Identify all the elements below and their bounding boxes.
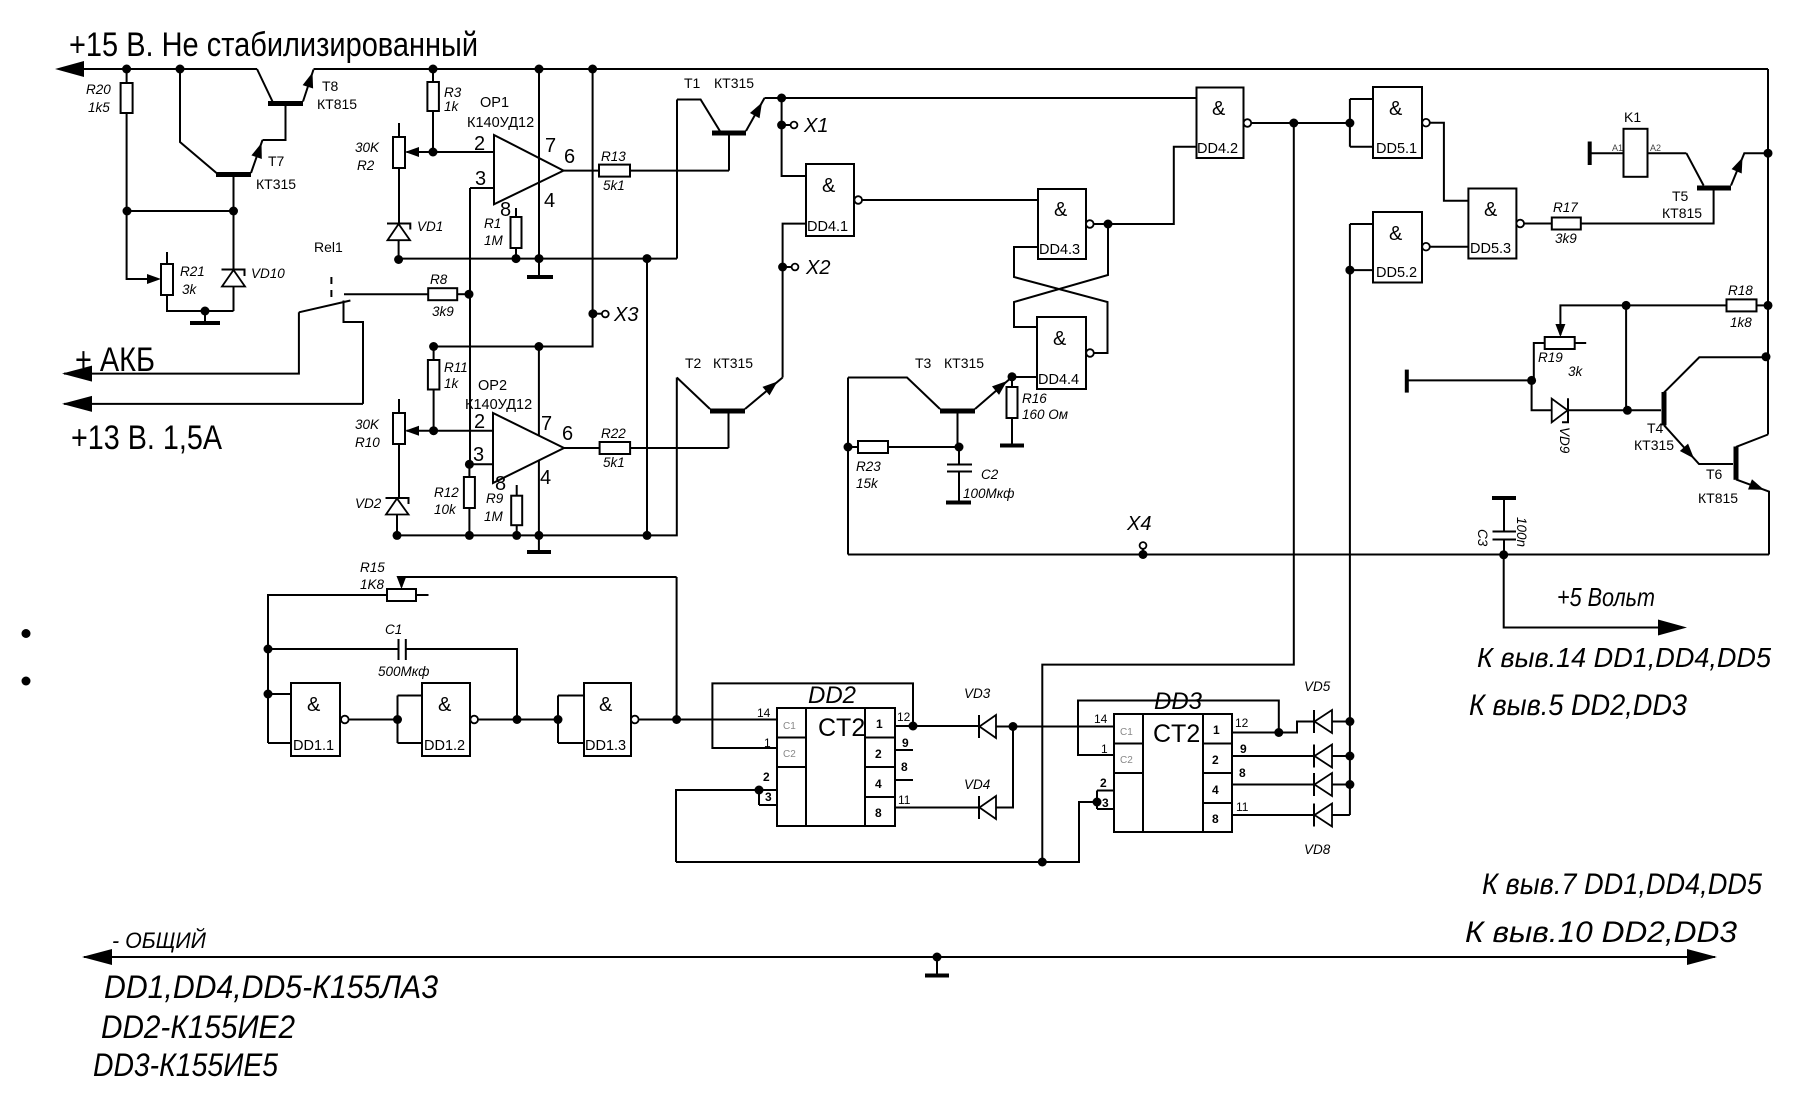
transistor T6 collector	[1736, 435, 1768, 447]
junction dot R23 left	[844, 443, 853, 452]
capacitor C3	[1503, 500, 1505, 532]
svg-text:8: 8	[875, 806, 882, 820]
svg-text:&: &	[1389, 98, 1403, 120]
ground R16	[1000, 444, 1024, 448]
junction dot DD4.2 out A	[1289, 119, 1298, 128]
wire DD5.1 input bracket	[1350, 99, 1373, 147]
wire DD3 feedback pin12 to C2 input	[1078, 701, 1279, 756]
transistor T5 base bar	[1697, 186, 1731, 191]
resistor R16 body	[1007, 387, 1018, 418]
svg-text:R13: R13	[601, 149, 626, 164]
svg-text:4: 4	[540, 467, 551, 489]
junction dot DD3 pin12	[1274, 728, 1283, 737]
transistor T5 collector	[1686, 153, 1703, 185]
transistor T6 base bar	[1734, 447, 1739, 480]
zener VD2 bottom lead	[396, 515, 398, 536]
wire DD3 pin11 line	[1232, 814, 1314, 816]
wire reset long line	[676, 802, 1097, 862]
svg-text:&: &	[1484, 199, 1498, 221]
junction dot base line right	[229, 207, 238, 216]
transistor T4 collector	[1664, 357, 1766, 392]
svg-text:T4: T4	[1647, 420, 1664, 436]
svg-text:R18: R18	[1728, 283, 1753, 298]
wire VD9 to T4 base	[1568, 409, 1661, 411]
svg-text:C2: C2	[1120, 755, 1133, 766]
junction dot R23 right	[955, 443, 964, 452]
svg-text:X2: X2	[805, 257, 830, 279]
svg-text:1k: 1k	[444, 376, 460, 391]
svg-text:3k9: 3k9	[432, 304, 454, 319]
potentiometer R2 wiper arrow	[405, 147, 419, 157]
potentiometer R10 wiper arrow	[405, 426, 419, 436]
wire T1 emitter line to DD4.2	[765, 97, 1197, 99]
svg-text:T8: T8	[322, 78, 339, 94]
diode VD3	[978, 715, 980, 738]
capacitor C3 terminal bar	[1492, 496, 1516, 500]
svg-text:500Мкф: 500Мкф	[378, 664, 429, 679]
svg-text:6: 6	[562, 423, 573, 445]
svg-text:C3: C3	[1475, 529, 1490, 547]
svg-text:14: 14	[1094, 712, 1108, 726]
zener VD9 triangle	[1552, 399, 1568, 423]
ground C2	[946, 501, 971, 505]
transistor T7 emitter	[251, 140, 263, 173]
wire R20 top lead	[126, 69, 128, 83]
wire VD5 cathode to bus	[1332, 721, 1350, 723]
resistor R8 body	[428, 288, 457, 300]
transistor T8 collector	[257, 69, 273, 102]
junction dot DD4.3 output	[1104, 220, 1113, 229]
wire VD6 cathode to bus	[1332, 755, 1350, 757]
svg-text:2: 2	[763, 770, 770, 784]
wire DD2 reset feed	[676, 790, 759, 862]
zener VD10 bottom lead	[233, 287, 235, 312]
wire DD3 pins 2,3 bracket	[1097, 791, 1114, 810]
svg-text:30K: 30K	[355, 417, 380, 432]
svg-text:100n: 100n	[1514, 517, 1529, 547]
terminal bar K1 left	[1588, 142, 1592, 166]
svg-text:R1: R1	[484, 216, 501, 231]
svg-text:4: 4	[875, 777, 882, 791]
wire R10 top stub	[398, 399, 400, 413]
svg-text:VD5: VD5	[1304, 679, 1331, 694]
transistor T2 base stem	[728, 413, 730, 448]
wire R12 top lead	[468, 464, 470, 477]
junction dot DD4.2 out B	[1345, 119, 1354, 128]
svg-text:160 Ом: 160 Ом	[1022, 407, 1068, 422]
junction dot VD3-VD4	[1009, 722, 1018, 731]
junction dot bus VD6	[1345, 752, 1354, 761]
diode VD5	[1313, 710, 1315, 733]
wire OP2 pin3 stub	[469, 463, 493, 465]
svg-text:КТ315: КТ315	[944, 355, 984, 371]
wire T7 base to R20 branch	[127, 210, 234, 212]
svg-text:5k1: 5k1	[603, 178, 625, 193]
junction dot DD1.3 input	[554, 715, 563, 724]
svg-text:DD1.3: DD1.3	[585, 738, 626, 754]
wire +15V rail left segment	[60, 68, 257, 70]
wire DD4.2 output long drop to counters reset	[1042, 123, 1294, 862]
wire R22 to T2 base	[630, 447, 728, 449]
svg-text:&: &	[1389, 223, 1403, 245]
junction dot rail OP1 power	[535, 65, 544, 74]
transistor T3 emitter	[975, 377, 1037, 409]
capacitor C1	[268, 648, 399, 650]
arrow +15V left	[55, 61, 84, 77]
wire OP1 power pin7 vertical	[538, 69, 540, 259]
wire common rail	[84, 956, 1715, 958]
junction dot VD9 node	[1527, 376, 1536, 385]
svg-text:R10: R10	[355, 435, 380, 450]
node X3	[588, 309, 597, 318]
svg-text:1k: 1k	[444, 99, 460, 114]
svg-text:R15: R15	[360, 560, 385, 575]
potentiometer R21 wiper arrow	[147, 274, 161, 284]
svg-text:1k5: 1k5	[88, 100, 110, 115]
junction dot T4 collector rail	[1762, 352, 1771, 361]
ground OP1	[538, 259, 540, 276]
wire R15 wiper feed	[402, 577, 677, 587]
wire +15V rail right segment	[314, 68, 1769, 70]
wire DD4.2 output line	[1251, 122, 1350, 124]
svg-text:R23: R23	[856, 459, 881, 474]
svg-text:7: 7	[545, 135, 556, 157]
transistor T3 base bar	[940, 409, 975, 414]
diode VD6	[1313, 745, 1315, 768]
wire R19 wiper feed	[1560, 305, 1626, 335]
svg-text:VD2: VD2	[355, 496, 382, 511]
junction dot DD3 pins 2,3	[1093, 798, 1102, 807]
wire DD5.3 output to R17	[1524, 223, 1552, 225]
junction dot feed OP2 power	[534, 342, 543, 351]
transistor T7 emitter arrow	[251, 141, 266, 159]
svg-text:11: 11	[1236, 800, 1249, 814]
svg-text:&: &	[307, 694, 321, 716]
wire +AKB riser	[64, 312, 299, 373]
junction dot bus VD7	[1345, 780, 1354, 789]
svg-text:&: &	[1053, 328, 1067, 350]
nand gate DD4.2	[1197, 88, 1252, 159]
resistor R18 body	[1727, 299, 1757, 311]
svg-text:T5: T5	[1672, 188, 1689, 204]
junction dot T5 emitter rail	[1764, 149, 1773, 158]
svg-text:R2: R2	[357, 158, 375, 173]
stray dot B	[22, 677, 31, 686]
wire DD4.1 output	[862, 199, 1038, 201]
transistor T6 emitter arrow	[1748, 479, 1766, 495]
wire R11 bottom lead	[433, 390, 435, 431]
zener VD2 triangle	[386, 499, 409, 515]
transistor T3 base stem	[957, 413, 959, 447]
junction dot branch bottom	[643, 531, 652, 540]
svg-text:+13 В. 1,5А: +13 В. 1,5А	[71, 419, 222, 457]
junction dot R8 right	[465, 290, 474, 299]
svg-text:1M: 1M	[484, 509, 504, 524]
transistor T1 base stem	[728, 135, 730, 171]
wire DD5.1 output to DD5.3	[1430, 123, 1469, 201]
label VD9 rotated	[1557, 427, 1572, 454]
wire T3 collector drop to X4 rail	[847, 378, 849, 555]
transistor T5 emitter	[1731, 153, 1768, 185]
svg-text:DD4.3: DD4.3	[1039, 242, 1080, 258]
relay coil K1	[1612, 109, 1661, 177]
wire OP1 pin2 line	[407, 151, 495, 153]
svg-text:DD5.2: DD5.2	[1376, 265, 1417, 281]
node X4	[1139, 550, 1148, 559]
wire OP2 feed from rail	[434, 69, 593, 347]
wire R19 left lead	[1534, 343, 1545, 380]
wire +5V rail	[848, 554, 1769, 556]
wire R18 left lead	[1626, 304, 1726, 306]
nand gate DD5.1	[1373, 87, 1430, 158]
svg-text:DD4.2: DD4.2	[1197, 141, 1238, 157]
svg-text:DD2-К155ИЕ2: DD2-К155ИЕ2	[101, 1009, 295, 1045]
junction dot feed R11	[429, 342, 438, 351]
svg-text:T1: T1	[684, 75, 701, 91]
potentiometer R19 body	[1545, 337, 1575, 349]
arrow +13V	[62, 396, 92, 412]
wire R11 top lead	[433, 347, 435, 361]
svg-text:1: 1	[1213, 723, 1220, 737]
transistor T1 emitter arrow	[750, 100, 767, 118]
wire R15 left lead	[268, 595, 387, 743]
nand gate DD4.4	[1037, 317, 1094, 389]
nand gate DD4.1	[806, 164, 862, 236]
junction dot OP1 pin2 node	[429, 148, 438, 157]
svg-text:7: 7	[541, 413, 552, 435]
relay Rel1 dashed link	[330, 277, 332, 301]
svg-text:VD10: VD10	[251, 266, 285, 281]
ground below R21	[204, 311, 206, 322]
wire R8 right lead	[457, 293, 469, 295]
svg-text:8: 8	[901, 760, 908, 774]
transistor T2 base bar	[710, 409, 745, 414]
junction dot base line left	[123, 207, 132, 216]
svg-text:C1: C1	[385, 622, 402, 637]
svg-text:VD4: VD4	[964, 777, 990, 792]
wire OP1 bottom rail	[397, 258, 677, 260]
svg-text:R22: R22	[601, 426, 626, 441]
wire diode bus vertical	[1349, 270, 1351, 815]
svg-text:R8: R8	[430, 272, 448, 287]
wire R21 bottom lead	[167, 295, 234, 311]
wire R23 line	[848, 446, 858, 448]
transistor T8 emitter	[303, 70, 314, 102]
svg-text:КТ315: КТ315	[256, 176, 296, 192]
wire R21 top stub	[166, 252, 168, 264]
junction dot R18 right	[1764, 301, 1773, 310]
svg-text:2: 2	[1212, 753, 1219, 767]
svg-text:DD2: DD2	[808, 682, 856, 709]
wire R15 right stub	[416, 594, 429, 596]
transistor T3 emitter arrow	[992, 377, 1011, 395]
wire R23 right lead	[888, 446, 959, 448]
junction dot DD1.2 input	[393, 715, 402, 724]
wire R19 right stub	[1575, 342, 1587, 344]
svg-text:C2: C2	[783, 749, 796, 760]
svg-text:VD1: VD1	[417, 219, 443, 234]
svg-text:R11: R11	[444, 360, 468, 375]
wire +13V line	[64, 403, 363, 405]
potentiometer R15 wiper arrow	[397, 576, 407, 589]
nand gate DD5.2	[1373, 212, 1430, 283]
wire OP1 output to R13	[564, 170, 600, 172]
arrow common left	[82, 949, 112, 965]
zener VD1 triangle	[388, 224, 411, 240]
stray dot A	[22, 629, 31, 638]
resistor R1 body	[511, 217, 522, 248]
resistor R11 body	[428, 360, 440, 390]
svg-text:1: 1	[876, 717, 883, 731]
svg-text:C1: C1	[783, 721, 796, 732]
svg-text:9: 9	[902, 736, 909, 750]
wire OP2 output to R22	[564, 447, 600, 449]
junction dot bus VD5	[1345, 717, 1354, 726]
svg-text:6: 6	[564, 146, 575, 168]
svg-text:DD3-К155ИЕ5: DD3-К155ИЕ5	[93, 1047, 278, 1083]
junction dot C3 bottom	[1499, 550, 1508, 559]
svg-text:OP2: OP2	[478, 378, 507, 394]
zener VD10 triangle	[222, 270, 245, 287]
wire DD3 pin8 line	[1232, 784, 1314, 786]
wire R3 bottom lead	[432, 111, 434, 152]
zener VD9 cathode bar	[1562, 398, 1568, 422]
transistor T7 base bar	[216, 172, 251, 177]
wire R1 bottom lead	[515, 248, 517, 259]
svg-text:DD1.1: DD1.1	[293, 738, 334, 754]
diode VD8	[1313, 804, 1315, 827]
transistor T1 base bar	[712, 131, 746, 136]
zener VD2 cathode bar	[386, 498, 409, 504]
wire +5V tap	[1504, 555, 1661, 628]
svg-text:R12: R12	[434, 485, 459, 500]
node X2	[778, 263, 787, 272]
wire R12 bottom lead	[468, 508, 470, 535]
wire DD4.3 output	[1094, 147, 1197, 224]
junction dot R15 riser	[672, 715, 681, 724]
svg-text:3k: 3k	[182, 282, 198, 297]
svg-text:8: 8	[500, 199, 511, 221]
wire OP2 bottom rail	[397, 378, 677, 536]
junction dot R12 bottom	[465, 531, 474, 540]
wire DD2 pin12 output line	[895, 725, 979, 727]
svg-text:КТ315: КТ315	[1634, 437, 1674, 453]
wire DD3 pin9 line	[1232, 755, 1314, 757]
svg-text:+5 Вольт: +5 Вольт	[1557, 582, 1655, 612]
transistor T5 emitter arrow	[1732, 155, 1748, 173]
junction dot common ground	[933, 953, 942, 962]
label 100n rotated	[1514, 517, 1529, 547]
svg-text:12: 12	[897, 710, 911, 724]
svg-text:2: 2	[1100, 776, 1107, 790]
wire K1 right lead	[1648, 152, 1687, 154]
svg-text:КТ315: КТ315	[713, 355, 753, 371]
svg-text:R17: R17	[1553, 200, 1578, 215]
svg-text:9: 9	[1240, 742, 1247, 756]
resistor R17 body	[1552, 218, 1581, 230]
svg-text:11: 11	[898, 793, 911, 807]
svg-text:3: 3	[1102, 796, 1109, 810]
svg-text:T6: T6	[1706, 466, 1723, 482]
svg-text:DD5.3: DD5.3	[1470, 241, 1511, 257]
junction dot rail R20	[122, 65, 131, 74]
wire K1 left lead	[1590, 152, 1624, 154]
svg-text:30K: 30K	[355, 140, 380, 155]
svg-text:15k: 15k	[856, 476, 879, 491]
nand gate DD1.3	[584, 683, 639, 756]
svg-text:R20: R20	[86, 82, 111, 97]
wire R17 to T5 base	[1581, 190, 1714, 224]
svg-text:VD3: VD3	[964, 686, 991, 701]
junction dot DD2 pin12	[909, 722, 918, 731]
wire R3 top lead	[432, 69, 434, 82]
transistor T7 collector	[180, 69, 217, 173]
wire DD1.1 input stubs	[268, 694, 291, 743]
wire R1 top stub pin8	[515, 208, 517, 217]
svg-text:R3: R3	[444, 85, 462, 100]
resistor R23 body	[858, 441, 888, 453]
potentiometer R15 body	[387, 589, 416, 601]
svg-text:X3: X3	[613, 304, 638, 326]
wire DD2 pin8 stub	[895, 779, 913, 781]
relay Rel1 moving contact	[299, 301, 351, 313]
arrow +5V	[1658, 620, 1687, 636]
ground common	[936, 957, 938, 975]
counter DD3	[1114, 688, 1232, 832]
svg-text:DD4.1: DD4.1	[807, 219, 848, 235]
wire R10 bottom lead	[398, 444, 400, 498]
wire R18 branch down to VD9 node	[1625, 305, 1627, 410]
arrow common right	[1687, 949, 1717, 965]
junction dot OP2 power bottom	[534, 531, 543, 540]
svg-text:10k: 10k	[434, 502, 457, 517]
svg-text:8: 8	[1239, 766, 1246, 780]
svg-text:8: 8	[1212, 812, 1219, 826]
svg-text:Rel1: Rel1	[314, 239, 343, 255]
wire right +15V rail vertical	[1767, 69, 1769, 435]
transistor T8 base stem	[263, 104, 286, 141]
transistor T8 base bar	[268, 101, 303, 106]
svg-text:2: 2	[875, 747, 882, 761]
potentiometer R21 body	[161, 264, 173, 295]
svg-text:A2: A2	[1650, 143, 1661, 153]
nand gate DD1.2	[422, 683, 478, 756]
wire R16 top lead	[1011, 377, 1013, 387]
svg-text:К выв.10 DD2,DD3: К выв.10 DD2,DD3	[1465, 916, 1737, 949]
transistor T4 emitter arrow	[1680, 444, 1698, 463]
junction dot OP2 pin3 node	[465, 460, 474, 469]
wire DD3 pin12 output line	[1232, 722, 1314, 733]
transistor T8 emitter arrow	[303, 71, 318, 89]
wire branch from OP1 rail down to OP2 rail	[646, 259, 648, 536]
wire OP2 power pin7 vertical	[538, 347, 540, 536]
wire X1 drop to DD4.1 input	[782, 98, 806, 176]
svg-text:&: &	[1054, 199, 1068, 221]
wire OP1 pin3 / R8 vertical	[469, 188, 471, 464]
svg-text:VD8: VD8	[1304, 842, 1331, 857]
transistor T4 emitter	[1664, 425, 1733, 464]
wire DD1.3 input bracket	[558, 696, 584, 744]
svg-text:R16: R16	[1022, 391, 1047, 406]
svg-text:R21: R21	[180, 264, 205, 279]
svg-text:VD9: VD9	[1557, 427, 1572, 454]
junction dot C1 left	[264, 645, 273, 654]
svg-text:&: &	[822, 175, 836, 197]
wire R9 bottom lead	[516, 525, 518, 535]
svg-text:&: &	[438, 694, 452, 716]
potentiometer R19 wiper arrow	[1555, 324, 1565, 337]
svg-text:4: 4	[1212, 783, 1219, 797]
